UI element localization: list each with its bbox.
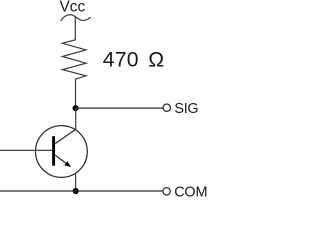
- emitter diagonal: [55, 155, 68, 164]
- svg-text:Vcc: Vcc: [60, 0, 86, 15]
- resistor R1 470 ohm: [62, 40, 86, 79]
- COM terminal circle: [163, 188, 170, 195]
- svg-text:COM: COM: [174, 184, 207, 200]
- bottom rail wire to COM: [0, 190, 162, 192]
- svg-text:SIG: SIG: [174, 101, 198, 117]
- emitter arrowhead: [64, 161, 71, 167]
- bottom junction dot (emitter node): [73, 188, 79, 194]
- wire resistor to node: [75, 79, 77, 108]
- wire Vcc to resistor: [74, 16, 76, 40]
- emitter wire: [75, 174, 77, 191]
- base wire: [0, 149, 52, 151]
- node junction dot (collector node): [73, 105, 79, 111]
- transistor Q1 body circle: [36, 126, 88, 178]
- wire node to collector: [75, 108, 77, 129]
- collector diagonal: [55, 129, 76, 144]
- svg-text:470 Ω: 470 Ω: [103, 49, 165, 72]
- wire node to SIG terminal: [76, 107, 163, 109]
- transistor base bar: [52, 136, 55, 166]
- SIG terminal circle: [163, 104, 170, 111]
- Vcc off-page connector squiggle: [61, 15, 91, 21]
